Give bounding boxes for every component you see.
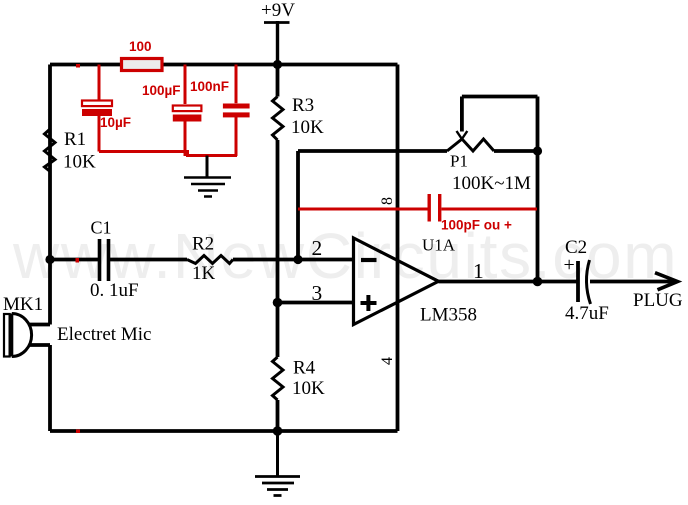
svg-text:R2: R2 bbox=[192, 234, 214, 255]
op-amp U1A bbox=[354, 236, 478, 326]
capacitor 100nF bbox=[190, 79, 250, 117]
plug arrow bbox=[633, 273, 683, 311]
svg-text:2: 2 bbox=[312, 236, 323, 260]
wire red 100uF bottom lead bbox=[184, 121, 187, 156]
capacitor C1 bbox=[90, 218, 139, 302]
wire R2 to op-amp pin2 bbox=[233, 258, 354, 262]
wire red 10uF bottom lead bbox=[98, 116, 101, 152]
node P1 right junction dot bbox=[533, 146, 542, 155]
node output junction dot bbox=[533, 277, 543, 287]
svg-text:R4: R4 bbox=[293, 358, 316, 379]
resistor 100 (red box) bbox=[122, 39, 163, 71]
svg-text:R1: R1 bbox=[64, 129, 86, 150]
wire red 100pF right bbox=[442, 208, 538, 211]
svg-text:10K: 10K bbox=[291, 117, 324, 138]
wire mic bottom stub bbox=[30, 343, 50, 347]
wire left rail upper bbox=[48, 65, 52, 325]
svg-text:4: 4 bbox=[379, 357, 396, 365]
svg-text:+9V: +9V bbox=[261, 0, 295, 21]
resistor R3 bbox=[273, 65, 325, 141]
svg-text:+: + bbox=[564, 254, 575, 276]
wire power rail pin8-pin4 bbox=[396, 65, 400, 432]
stray red mark middle bbox=[76, 258, 80, 263]
wire left rail lower bbox=[48, 345, 52, 431]
potentiometer P1 bbox=[447, 97, 538, 195]
wire P1 right leg down bbox=[536, 151, 540, 282]
svg-text:1K: 1K bbox=[192, 263, 216, 284]
resistor R2 bbox=[187, 234, 233, 285]
node +9V junction dot bbox=[273, 60, 282, 69]
wire C2 to plug bbox=[590, 280, 677, 284]
svg-text:100µF: 100µF bbox=[142, 83, 181, 98]
wire mic top stub bbox=[30, 323, 50, 327]
wire red 10uF top lead bbox=[98, 65, 101, 101]
stray red mark top bbox=[76, 64, 80, 68]
wire red 100nF top lead bbox=[235, 65, 238, 104]
svg-text:P1: P1 bbox=[450, 152, 468, 171]
wire red 100nF bottom lead bbox=[235, 117, 238, 156]
wire feedback vertical bbox=[296, 151, 300, 260]
svg-text:100K~1M: 100K~1M bbox=[452, 173, 531, 194]
svg-text:0. 1uF: 0. 1uF bbox=[90, 280, 139, 301]
node C1 left junction dot bbox=[45, 255, 54, 264]
wire top rail bbox=[50, 63, 398, 67]
wire red filter bottom bus bbox=[99, 152, 237, 156]
svg-text:10µF: 10µF bbox=[100, 115, 131, 130]
capacitor 100pF bbox=[429, 194, 512, 233]
wire C1 to R2 bbox=[110, 258, 187, 262]
wire pin2 row left bbox=[50, 258, 98, 262]
svg-text:R3: R3 bbox=[292, 95, 314, 116]
svg-text:Electret Mic: Electret Mic bbox=[57, 324, 151, 345]
microphone MK1 bbox=[3, 294, 151, 357]
stray red mark bottom bbox=[76, 430, 80, 434]
ground (filter) bbox=[184, 156, 231, 197]
svg-text:100pF ou +: 100pF ou + bbox=[441, 218, 512, 233]
svg-text:4.7uF: 4.7uF bbox=[565, 303, 609, 324]
node bottom-rail ground junction dot bbox=[273, 426, 283, 436]
wire R3 bottom to pin3 node bbox=[276, 140, 280, 303]
svg-text:1: 1 bbox=[473, 259, 484, 283]
ground (bottom) bbox=[255, 431, 300, 496]
svg-text:8: 8 bbox=[379, 197, 396, 205]
capacitor 10uF bbox=[82, 101, 131, 131]
wire output pin1 bbox=[439, 280, 579, 284]
wire red 100uF top lead bbox=[184, 65, 187, 105]
svg-text:100: 100 bbox=[129, 39, 152, 54]
svg-text:100nF: 100nF bbox=[190, 79, 229, 94]
resistor R4 bbox=[273, 303, 326, 432]
svg-text:MK1: MK1 bbox=[3, 294, 43, 315]
wire red 100pF left bbox=[298, 208, 428, 211]
wire op-amp pin3 bbox=[278, 301, 354, 305]
svg-text:10K: 10K bbox=[63, 152, 96, 173]
svg-text:U1A: U1A bbox=[422, 236, 456, 255]
wire feedback horizontal bbox=[298, 149, 447, 153]
wire bottom rail bbox=[50, 429, 398, 433]
svg-text:10K: 10K bbox=[292, 378, 325, 399]
resistor R1 bbox=[45, 129, 97, 173]
node pin3 junction dot bbox=[273, 298, 283, 308]
svg-text:LM358: LM358 bbox=[420, 305, 477, 326]
capacitor C2 bbox=[564, 237, 609, 324]
capacitor 100uF bbox=[142, 83, 201, 122]
svg-text:PLUG: PLUG bbox=[633, 290, 683, 311]
node feedback junction dot bbox=[293, 255, 302, 264]
+9V supply symbol bbox=[261, 0, 295, 65]
svg-text:C1: C1 bbox=[91, 218, 112, 238]
